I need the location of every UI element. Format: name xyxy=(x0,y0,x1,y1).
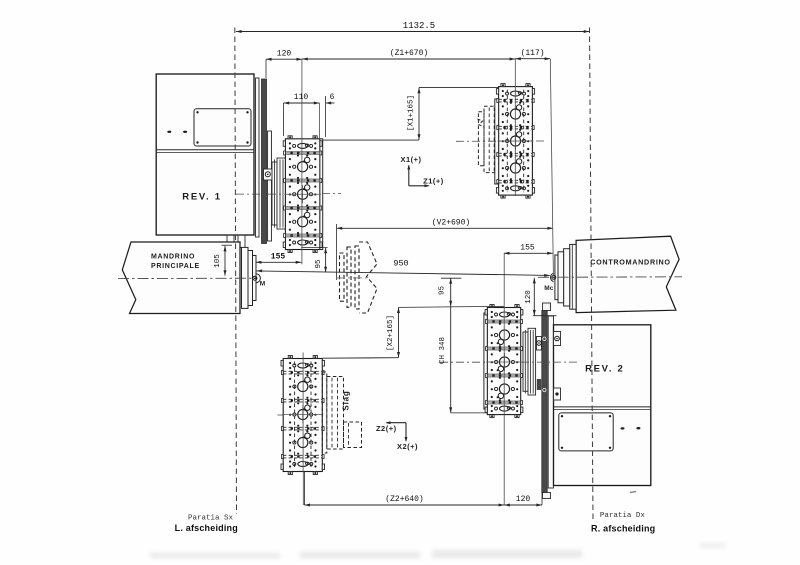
machine axis centerline right xyxy=(538,276,682,279)
svg-text:REV. 2: REV. 2 xyxy=(585,364,624,375)
dimension [X2+165] xyxy=(323,307,401,358)
svg-text:110: 110 xyxy=(294,93,309,102)
svg-text:950: 950 xyxy=(393,258,408,268)
extension line (117)/Mc vertical xyxy=(550,59,553,276)
svg-text:120: 120 xyxy=(525,290,533,304)
turret 2 tool disc (phantom position) xyxy=(495,84,535,199)
vertical dashed bulkhead line Paratia Sx xyxy=(235,28,237,515)
svg-text:M: M xyxy=(260,281,266,288)
extension line turret 4 center xyxy=(503,253,505,505)
svg-text:X2(+): X2(+) xyxy=(397,442,418,451)
scan artifact smudges xyxy=(150,543,725,558)
scan speck below REV.2 xyxy=(630,492,636,493)
connector blocks below REV.1 xyxy=(227,235,245,248)
REV.1 turret housing box xyxy=(156,74,254,235)
svg-text:Paratia Dx: Paratia Dx xyxy=(600,512,646,520)
svg-text:155: 155 xyxy=(520,244,535,253)
turret 1 horizontal centerline xyxy=(236,193,341,196)
REV.2 mounting plate light xyxy=(548,316,553,488)
svg-text:PRINCIPALE: PRINCIPALE xyxy=(151,263,200,270)
mounting plate C xyxy=(268,131,272,241)
sub spindle reference point Mc xyxy=(544,273,556,292)
dashed collet chuck outline xyxy=(340,242,378,313)
dimension 95 right vertical xyxy=(439,278,462,306)
svg-text:[X1+165]: [X1+165] xyxy=(407,95,415,131)
turret 2 dashed tool holder attachment xyxy=(478,106,499,172)
svg-text:(V2+690): (V2+690) xyxy=(432,218,470,227)
turret 4 horizontal centerline xyxy=(440,361,577,363)
bolt block with circle on slide 1 xyxy=(264,169,273,180)
extension line turret 3 center lower part xyxy=(302,472,304,506)
mounting plate A xyxy=(256,78,260,237)
extension line turret 2 center xyxy=(514,59,516,196)
coordinate axes Z2 X2 xyxy=(376,421,418,451)
REV.2 mounting plate dark xyxy=(542,303,551,499)
dimension 110 xyxy=(284,93,320,136)
svg-text:Slag: Slag xyxy=(342,390,351,410)
REV.2 turret housing box xyxy=(554,325,651,486)
svg-text:CONTROMANDRINO: CONTROMANDRINO xyxy=(590,258,670,267)
dimension 95 left vertical xyxy=(301,248,327,273)
svg-text:MANDRINO: MANDRINO xyxy=(151,254,195,261)
dimension 120 top xyxy=(266,50,302,79)
label Paratia Dx xyxy=(600,512,646,520)
turret 2 horizontal centerline xyxy=(456,140,546,142)
svg-text:X1(+): X1(+) xyxy=(400,155,421,164)
sub spindle chuck rings xyxy=(555,244,576,309)
label Slag xyxy=(342,390,351,410)
svg-text:(Z1+670): (Z1+670) xyxy=(390,49,428,58)
svg-text:95: 95 xyxy=(439,286,447,296)
dimension [X1+165] xyxy=(323,88,499,141)
label Paratia Sx xyxy=(188,515,234,523)
dimension 120 bottom xyxy=(504,493,542,507)
sub spindle box CONTROMANDRINO xyxy=(576,236,679,312)
machine axis centerline left xyxy=(118,277,253,279)
dimension 155 right xyxy=(504,244,553,255)
main spindle box MANDRINO PRINCIPALE xyxy=(122,242,240,314)
dimension (Z2+640) xyxy=(304,472,504,507)
dimension 155 left xyxy=(256,252,301,264)
turret 4 top reference plane xyxy=(399,306,504,307)
svg-text:Z2(+): Z2(+) xyxy=(376,424,397,433)
svg-text:Z1(+): Z1(+) xyxy=(423,176,444,185)
dimension 6 xyxy=(326,93,335,137)
machine axis centerline middle xyxy=(336,277,368,279)
turret 3 horizontal centerline xyxy=(278,414,284,416)
turret 3 dashed tool holder attachment xyxy=(322,372,361,453)
svg-text:155: 155 xyxy=(271,252,286,261)
turret 4 tool disc REV.2 xyxy=(484,305,523,418)
dimension (V2+690) xyxy=(337,218,553,280)
svg-text:(Z2+640): (Z2+640) xyxy=(385,495,423,504)
svg-text:Mc: Mc xyxy=(544,285,554,292)
turret 3 tool disc (phantom position) xyxy=(281,356,325,475)
dimension 950 between spindle noses xyxy=(257,258,550,277)
svg-text:6: 6 xyxy=(330,93,335,102)
vertical dashed bulkhead line Paratia Dx xyxy=(590,28,594,521)
svg-text:[X2+165]: [X2+165] xyxy=(387,315,395,351)
svg-text:1132.5: 1132.5 xyxy=(403,21,435,31)
svg-text:Paratia Sx: Paratia Sx xyxy=(188,515,234,523)
dimension (117) xyxy=(515,49,550,60)
svg-text:CH 348: CH 348 xyxy=(439,337,447,364)
svg-text:120: 120 xyxy=(277,50,292,59)
extension line turret 3 center xyxy=(302,353,304,473)
dimension 105 vertical xyxy=(214,245,232,276)
dimension (Z1+670) xyxy=(302,49,515,60)
svg-text:95: 95 xyxy=(315,259,323,269)
dimension CH 348 vertical xyxy=(439,306,487,413)
extension line turret 1 right edge xyxy=(319,103,321,139)
spindle nose reference point M xyxy=(253,274,266,288)
turret 4 drum bearing stack xyxy=(523,328,536,395)
turret REV.1 tool disc xyxy=(283,136,322,253)
svg-text:R. afscheiding: R. afscheiding xyxy=(591,524,655,534)
bolt block with circle on slide 4 xyxy=(537,337,542,391)
dimension 120 right vertical xyxy=(525,278,556,316)
svg-text:L. afscheiding: L. afscheiding xyxy=(175,523,238,533)
bolt tabs on REV.2 plate xyxy=(554,332,561,401)
extension line turret 1 center xyxy=(301,59,303,264)
main spindle chuck rings xyxy=(242,247,257,308)
turret 1 drum bearing stack xyxy=(272,158,287,229)
svg-text:REV. 1: REV. 1 xyxy=(182,192,221,203)
coordinate axes X1 Z1 xyxy=(400,155,443,187)
label R. afscheiding xyxy=(591,524,655,534)
svg-text:(117): (117) xyxy=(521,49,545,58)
dimension 1132.5 overall width xyxy=(236,21,589,33)
label L. afscheiding xyxy=(175,523,238,533)
svg-text:105: 105 xyxy=(214,254,222,268)
mounting plate B dark xyxy=(262,79,267,244)
svg-text:120: 120 xyxy=(516,495,531,504)
